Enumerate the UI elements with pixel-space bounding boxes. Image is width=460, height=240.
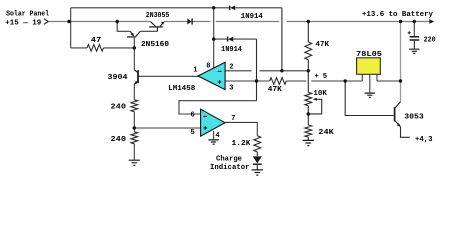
wire: 78L05 ground leg (middle) [369, 74, 371, 93]
svg-text:240: 240 [111, 104, 127, 112]
wire: pin 3 / +5 line y=81 [225, 80, 400, 82]
wire: main +V rail y=21.5 segments with crossing gaps [69, 21, 430, 23]
svg-text:4: 4 [215, 132, 219, 140]
wire: pot bottom to 24K [307, 106, 309, 125]
wire: vertical x=256.5 diode anode / pin3 / pin6 net [256, 39, 258, 101]
wire: solar panel input to node A [49, 21, 69, 23]
resistor 240 lower (vertical) [131, 132, 138, 144]
diode 1N914 top (points left) [230, 6, 235, 11]
svg-text:220: 220 [424, 37, 436, 45]
svg-text:8: 8 [206, 63, 210, 71]
svg-text:1N914: 1N914 [241, 13, 263, 21]
wire: node B down to 3904 collector [133, 48, 135, 70]
resistor 1.2K (vertical) [254, 136, 261, 152]
wire: 78L05 input leg (right) [376, 74, 378, 81]
svg-text:Charge: Charge [216, 155, 242, 163]
wire: U1B pin 4 to ground [213, 131, 215, 140]
svg-text:1N914: 1N914 [221, 46, 242, 54]
wire: left box vertical at x=70.7 [70, 8, 72, 48]
svg-text:Indicator: Indicator [210, 164, 250, 172]
potentiometer wiper arrow and wire [313, 98, 317, 101]
wire: pin2 node down to 10K pot (crosses +5 line) [307, 71, 309, 93]
wire: between 240 resistors [133, 112, 135, 132]
svg-text:47K: 47K [316, 41, 330, 49]
svg-text:78L05: 78L05 [356, 51, 382, 59]
input connector chevron [44, 19, 48, 25]
wire: U1B pin 6 feedback loop [179, 101, 257, 114]
wire: pin 2 net y=70.8 with crossing gap [225, 70, 308, 72]
wire: op-amp pin 8 supply vertical [213, 8, 215, 69]
svg-text:+ 5: + 5 [315, 73, 328, 81]
wire: vertical from top rail corner down to pin2 net [281, 8, 283, 71]
ground: below capacitor [409, 49, 419, 53]
resistor 240 upper (vertical) [131, 100, 138, 112]
wire: capacitor 220 top lead [413, 22, 415, 37]
svg-text:10K: 10K [313, 90, 327, 98]
wire: 2N5160 collector to 2N3055 base [140, 30, 157, 32]
regulator 78L05 body [357, 58, 381, 75]
wire: LED cathode to ground [256, 165, 258, 170]
wire: Q2 base lead down to node B [133, 38, 135, 48]
ground: below LED [252, 170, 263, 175]
svg-text:3: 3 [229, 85, 233, 93]
svg-text:6: 6 [191, 111, 195, 119]
wire: divider midpoint to op-amp U1B pin 5 [134, 127, 200, 129]
ground: below 24K [303, 140, 314, 145]
resistor 47K (vertical) [305, 42, 312, 60]
svg-text:47: 47 [91, 37, 102, 45]
wire: capacitor to ground [413, 41, 415, 49]
wire: 1N914 (mid) leads at y=39.1 [214, 38, 257, 40]
ground: op-amp pin 4 [208, 140, 218, 144]
svg-text:Solar Panel: Solar Panel [6, 10, 49, 18]
transistor Q4 3053 [395, 102, 401, 127]
capacitor 220 plates [410, 37, 420, 40]
wire: U1B output pin 7 to 1.2K [225, 122, 257, 135]
svg-text:LM1458: LM1458 [168, 85, 195, 93]
svg-text:1.2K: 1.2K [232, 140, 251, 148]
svg-text:3053: 3053 [404, 114, 424, 122]
wire: +5 node to 3053 base [345, 81, 393, 116]
svg-text:5: 5 [191, 129, 195, 137]
diode 1N914 mid (points left) [228, 37, 233, 42]
wire: top rail y=7.8 to corner x=281.9 [71, 7, 282, 9]
wire: 3904 base to op-amp U1A output pin 1 [138, 75, 198, 77]
wire: +13.6 vertical down to 3053 collector [400, 22, 402, 102]
wire: 78L05 output leg (left) [361, 74, 363, 81]
wire: 2N5160 emitter L-wire from rail node [117, 22, 130, 32]
wire: 47K bottom lead to pin2 node [307, 60, 309, 71]
svg-text:3904: 3904 [108, 74, 128, 82]
svg-text:24K: 24K [318, 129, 334, 137]
svg-text:47K: 47K [268, 86, 282, 94]
transistor Q1 2N3055 [149, 22, 164, 32]
op-amp U1A LM1458 (points left) [198, 62, 225, 89]
svg-text:+13.6 to Battery: +13.6 to Battery [362, 11, 433, 19]
potentiometer 10K (vertical) [305, 92, 312, 106]
transistor Q2 2N5160 [127, 31, 140, 37]
wire: 1.2K to LED [256, 152, 258, 156]
wire: 3904 emitter down to 240 divider [133, 84, 135, 100]
capacitor + polarity mark [408, 31, 411, 34]
resistor 47K (horizontal, pin3 line) [270, 78, 287, 85]
diode on main rail (points right) [187, 19, 191, 25]
svg-text:2: 2 [229, 63, 233, 71]
ground: below 240 divider [129, 160, 140, 165]
wire: 47K vertical resistor top lead from rail [307, 22, 309, 43]
LED charge indicator diode [253, 156, 262, 163]
wire: 24K to ground [307, 137, 309, 140]
ground: 78L05 middle leg [365, 93, 375, 97]
resistor 47 (horizontal) [87, 45, 104, 52]
svg-text:+4,3: +4,3 [415, 136, 433, 144]
wire: 240 divider to ground [133, 144, 135, 160]
wire: 3053 emitter to +4,3 stub [401, 127, 410, 138]
svg-text:2N3055: 2N3055 [146, 12, 170, 20]
wire: 47 ohm resistor leads [71, 47, 135, 49]
transistor Q3 3904 [134, 70, 138, 84]
op-amp U1B LM1458 (points right) [201, 109, 225, 136]
arrowhead: to battery [429, 19, 434, 23]
svg-text:1: 1 [193, 66, 197, 74]
svg-text:7: 7 [231, 115, 235, 123]
svg-text:2N5160: 2N5160 [141, 41, 169, 49]
svg-text:240: 240 [111, 136, 127, 144]
resistor 24K (vertical) [305, 125, 312, 137]
svg-text:+15 — 19: +15 — 19 [5, 19, 41, 27]
